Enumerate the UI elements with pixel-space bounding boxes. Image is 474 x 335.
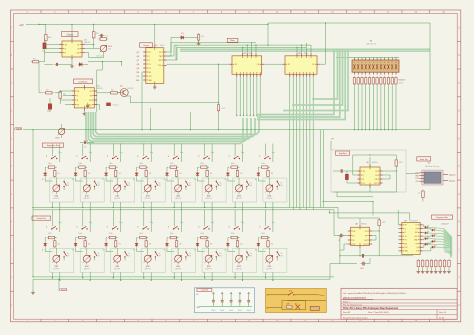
svg-text:100k: 100k — [139, 163, 143, 165]
svg-text:OUT: OUT — [415, 181, 418, 183]
svg-text:BC547: BC547 — [128, 88, 135, 90]
svg-text:DIS: DIS — [149, 72, 152, 74]
svg-text:CV: CV — [149, 64, 151, 66]
svg-text:CV: CV — [159, 52, 161, 54]
svg-text:B1M: B1M — [115, 196, 119, 198]
svg-text:TH: TH — [77, 48, 79, 50]
svg-text:Seq: Seq — [58, 152, 61, 154]
svg-text:J: J — [458, 277, 459, 279]
svg-text:Q6: Q6 — [136, 56, 139, 58]
svg-text:GADET: GADET — [16, 128, 23, 131]
svg-text:Control Sw: Control Sw — [37, 217, 47, 220]
svg-text:1M POT: 1M POT — [175, 198, 181, 200]
svg-text:100k: 100k — [399, 82, 403, 84]
svg-text:Ref Note Lfo rng: Ref Note Lfo rng — [425, 165, 439, 168]
svg-text:Caps Rail: Caps Rail — [201, 289, 209, 291]
svg-text:B1M: B1M — [85, 196, 89, 198]
svg-text:CV: CV — [257, 64, 259, 66]
svg-text:1M POT: 1M POT — [53, 198, 59, 200]
svg-text:1M POT: 1M POT — [205, 198, 211, 200]
svg-text:Title: Pic's Easy 555 Analogue: Title: Pic's Easy 555 Analogue Step Sequ… — [343, 307, 398, 310]
svg-text:Q5: Q5 — [136, 52, 139, 54]
svg-text:1M POT: 1M POT — [145, 198, 151, 200]
svg-text:B1M: B1M — [146, 196, 150, 198]
svg-text:CV: CV — [77, 44, 79, 46]
svg-text:On: On — [158, 183, 160, 185]
svg-text:CV: CV — [353, 244, 355, 246]
svg-text:Size: A3: Size: A3 — [343, 311, 350, 314]
svg-text:B1M: B1M — [207, 196, 211, 198]
svg-text:Sequence Bits: Sequence Bits — [436, 216, 448, 219]
svg-text:C10: C10 — [360, 268, 363, 270]
svg-text:TH: TH — [90, 95, 92, 97]
svg-text:DIS: DIS — [89, 100, 92, 102]
svg-text:Count: Count — [143, 44, 149, 47]
svg-text:1M POT: 1M POT — [145, 269, 151, 271]
svg-text:Clock: Clock — [67, 33, 74, 37]
svg-text:B1M: B1M — [55, 266, 59, 268]
svg-text:1M POT: 1M POT — [114, 198, 120, 200]
svg-text:Seq: Seq — [150, 152, 153, 154]
svg-text:On: On — [97, 183, 99, 185]
svg-text:On: On — [250, 253, 252, 255]
svg-text:1M POT: 1M POT — [236, 269, 242, 271]
svg-text:100k: 100k — [261, 163, 265, 165]
svg-text:1M POT: 1M POT — [236, 198, 242, 200]
svg-text:NE555: NE555 — [97, 88, 104, 90]
svg-text:1M POT: 1M POT — [84, 269, 90, 271]
svg-text:Rev: 4.0: Rev: 4.0 — [439, 312, 446, 314]
svg-text:Id: 1/1: Id: 1/1 — [439, 317, 444, 319]
svg-text:Q7: Q7 — [136, 60, 139, 62]
svg-text:TH: TH — [365, 235, 367, 237]
svg-text:B1M: B1M — [268, 196, 272, 198]
svg-text:1M POT: 1M POT — [114, 269, 120, 271]
svg-text:1M POT: 1M POT — [84, 198, 90, 200]
svg-text:B1M: B1M — [207, 266, 211, 268]
svg-text:G: G — [458, 194, 460, 196]
svg-text:B1M: B1M — [55, 196, 59, 198]
svg-text:B1M: B1M — [237, 266, 241, 268]
svg-text:DIS: DIS — [77, 52, 80, 54]
svg-text:Piezo: Piezo — [320, 295, 325, 297]
svg-text:Seq: Seq — [119, 152, 122, 154]
svg-text:Lfo/Noise: Lfo/Noise — [78, 82, 88, 84]
svg-text:4051: 4051 — [249, 53, 253, 55]
svg-text:D10-D17: D10-D17 — [441, 224, 448, 226]
svg-text:100k: 100k — [200, 163, 204, 165]
svg-text:CV: CV — [405, 236, 407, 238]
svg-text:B1M: B1M — [176, 196, 180, 198]
svg-text:Seq: Seq — [241, 152, 244, 154]
svg-text:Seq: Seq — [211, 222, 214, 224]
svg-text:J: J — [11, 277, 12, 279]
svg-text:TH: TH — [375, 175, 377, 177]
svg-text:1M POT: 1M POT — [205, 269, 211, 271]
svg-text:DIS: DIS — [364, 240, 367, 242]
svg-text:100k: 100k — [78, 233, 82, 235]
svg-text:Seq: Seq — [89, 222, 92, 224]
svg-text:On: On — [189, 253, 191, 255]
svg-text:100nF: 100nF — [211, 310, 215, 312]
svg-text:100k: 100k — [78, 163, 82, 165]
svg-text:Clk rate: Clk rate — [96, 55, 104, 58]
svg-text:CV: CV — [375, 171, 377, 173]
svg-text:NE555: NE555 — [84, 42, 91, 44]
svg-text:220-470R: 220-470R — [444, 252, 452, 254]
svg-text:ULN2803: ULN2803 — [410, 220, 418, 222]
svg-text:100k: 100k — [109, 233, 113, 235]
svg-text:On: On — [67, 253, 69, 255]
svg-text:1M POT: 1M POT — [53, 269, 59, 271]
svg-text:Seq: Seq — [89, 152, 92, 154]
svg-text:100nF: 100nF — [220, 310, 224, 312]
svg-text:Speaker+: Speaker+ — [449, 173, 456, 176]
svg-text:On: On — [280, 183, 282, 185]
svg-text:Seq out: Seq out — [61, 288, 68, 291]
svg-text:C6 10n: C6 10n — [113, 105, 119, 107]
svg-text:On: On — [219, 183, 221, 185]
svg-text:TH: TH — [416, 228, 418, 230]
svg-text:10: 10 — [388, 62, 390, 64]
svg-text:On: On — [219, 253, 221, 255]
svg-text:CV: CV — [90, 91, 92, 93]
svg-text:Speaker-: Speaker- — [449, 179, 456, 182]
svg-text:100k: 100k — [231, 163, 235, 165]
svg-text:CV: CV — [415, 225, 417, 227]
svg-text:KiCad E.D.A. kicad (5.1.10)-1: KiCad E.D.A. kicad (5.1.10)-1 — [343, 316, 368, 319]
svg-text:Link : youtu.be/LuMhvVONKnRvgT: Link : youtu.be/LuMhvVONKnRvgTQVc8GKrvgf… — [343, 292, 408, 295]
svg-text:100k: 100k — [109, 163, 113, 165]
svg-text:B1M: B1M — [115, 266, 119, 268]
svg-text:1M POT: 1M POT — [266, 198, 272, 200]
svg-text:1M POT: 1M POT — [266, 269, 272, 271]
svg-text:Seq: Seq — [58, 222, 61, 224]
svg-text:100nF: 100nF — [229, 310, 233, 312]
svg-text:B1M: B1M — [268, 266, 272, 268]
svg-text:G: G — [10, 194, 12, 196]
svg-text:Sw1: Sw1 — [289, 291, 292, 293]
svg-text:On: On — [128, 253, 130, 255]
svg-text:1M: 1M — [108, 49, 111, 51]
svg-text:100k: 100k — [139, 233, 143, 235]
svg-text:R12: R12 — [222, 108, 225, 110]
svg-text:Seq: Seq — [119, 222, 122, 224]
svg-text:TH: TH — [159, 56, 161, 58]
svg-text:1M POT: 1M POT — [175, 269, 181, 271]
svg-text:Seq: Seq — [241, 222, 244, 224]
svg-text:TH: TH — [405, 240, 407, 242]
svg-text:Sheet: /: Sheet: / — [343, 300, 350, 303]
svg-text:CV: CV — [312, 64, 314, 66]
svg-text:Q8: Q8 — [136, 64, 139, 66]
svg-text:CV: CV — [363, 183, 365, 185]
svg-text:On: On — [158, 253, 160, 255]
svg-text:SW DIP-12: SW DIP-12 — [366, 44, 377, 46]
svg-text:100k: 100k — [170, 233, 174, 235]
svg-text:1k: 1k — [418, 193, 420, 195]
svg-text:Seq: Seq — [150, 222, 153, 224]
svg-text:On: On — [280, 253, 282, 255]
svg-text:NE555: NE555 — [372, 162, 378, 164]
svg-text:Seq: Seq — [180, 152, 183, 154]
svg-text:TH: TH — [149, 68, 151, 70]
svg-text:100k: 100k — [170, 163, 174, 165]
svg-text:R22: R22 — [382, 222, 385, 224]
svg-text:100k: 100k — [48, 163, 52, 165]
svg-text:100k: 100k — [200, 233, 204, 235]
svg-text:DIS: DIS — [159, 60, 162, 62]
svg-text:On: On — [128, 183, 130, 185]
svg-text:Seq Mod: Seq Mod — [339, 153, 347, 155]
svg-text:On: On — [189, 183, 191, 185]
svg-text:Seq: Seq — [211, 152, 214, 154]
svg-text:Seq: Seq — [272, 152, 275, 154]
svg-text:DIS: DIS — [375, 179, 378, 181]
svg-text:CV: CV — [365, 231, 367, 233]
svg-text:100nF: 100nF — [238, 310, 242, 312]
svg-text:R20: R20 — [399, 162, 402, 164]
svg-text:On: On — [250, 183, 252, 185]
svg-text:DIS: DIS — [415, 232, 418, 234]
svg-text:+9V: +9V — [19, 23, 24, 27]
svg-text:On: On — [97, 253, 99, 255]
svg-text:R6-R17: R6-R17 — [399, 80, 407, 82]
svg-text:CV: CV — [77, 104, 79, 106]
svg-text:Q9: Q9 — [136, 68, 139, 70]
svg-text:Seq: Seq — [180, 222, 183, 224]
svg-text:DIS: DIS — [405, 243, 408, 245]
svg-text:Date: 7 Sept 2021-06-05: Date: 7 Sept 2021-06-05 — [368, 311, 389, 314]
svg-text:100k: 100k — [261, 233, 265, 235]
svg-text:NE555: NE555 — [361, 224, 367, 226]
svg-text:B1M: B1M — [146, 266, 150, 268]
svg-text:4051: 4051 — [304, 53, 308, 55]
svg-text:Seq: Seq — [272, 222, 275, 224]
svg-text:B1M: B1M — [237, 196, 241, 198]
svg-text:B1M: B1M — [176, 266, 180, 268]
svg-text:100k: 100k — [231, 233, 235, 235]
svg-text:On: On — [67, 183, 69, 185]
svg-text:100k: 100k — [48, 233, 52, 235]
svg-text:Pzo: Pzo — [295, 304, 298, 306]
svg-text:B1M: B1M — [85, 266, 89, 268]
svg-text:Sequence Res: Sequence Res — [47, 145, 59, 147]
svg-text:100nF: 100nF — [247, 310, 251, 312]
svg-text:Gate Trig: Gate Trig — [420, 158, 428, 161]
